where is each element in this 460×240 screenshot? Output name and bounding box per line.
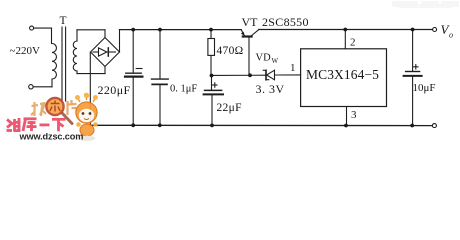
svg-text:470Ω: 470Ω: [217, 45, 244, 57]
svg-text:2SC8550: 2SC8550: [262, 15, 309, 29]
svg-text:10μF: 10μF: [413, 82, 436, 94]
svg-text:~220V: ~220V: [10, 45, 40, 57]
svg-text:T: T: [60, 15, 67, 27]
svg-text:o: o: [449, 31, 453, 40]
svg-text:3. 3V: 3. 3V: [256, 82, 285, 96]
svg-text:220μF: 220μF: [98, 83, 131, 97]
svg-text:22μF: 22μF: [217, 102, 242, 114]
svg-text:0. 1μF: 0. 1μF: [170, 83, 197, 94]
svg-text:VD: VD: [256, 53, 272, 64]
svg-text:1: 1: [290, 62, 296, 74]
svg-text:3: 3: [351, 109, 357, 121]
svg-text:www.dzsc.com: www.dzsc.com: [19, 132, 84, 142]
svg-text:VT: VT: [242, 15, 259, 29]
svg-text:MC3X164−5: MC3X164−5: [306, 67, 379, 82]
svg-text:2: 2: [350, 37, 356, 49]
svg-text:W: W: [272, 57, 279, 65]
